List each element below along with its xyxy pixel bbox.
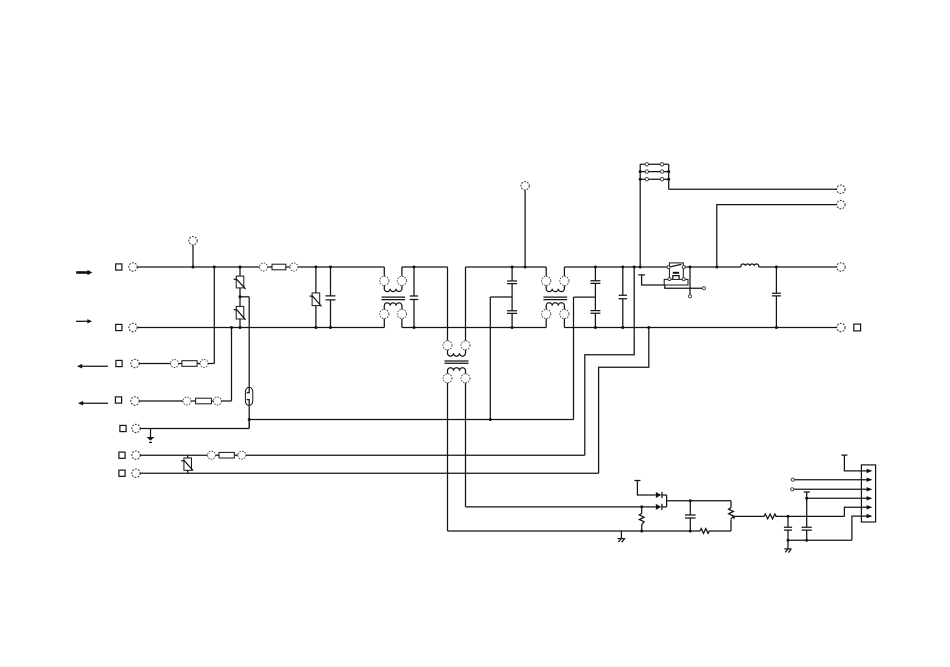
fuse F1 row1 [260, 263, 298, 271]
wire row2 to row7 feed [599, 328, 649, 474]
arrow L (bold input arrow row1) [76, 270, 92, 275]
ground row5 [147, 429, 155, 444]
wire midpoint riser to bus2 [573, 297, 575, 419]
jumper block J1 [640, 163, 669, 267]
wire row4 to riser [221, 400, 231, 402]
wire diode join [666, 495, 668, 507]
capacitor C1 (series pair upper) [507, 267, 517, 284]
wire row1 fuse-to-choke [298, 266, 384, 268]
wire Vcc tee [634, 481, 653, 496]
wire row5 [140, 428, 249, 430]
capacitor CX1 [326, 267, 336, 328]
wire diode output [667, 500, 731, 502]
capacitor C3 (series pair upper) [590, 267, 600, 283]
capacitor C5 [619, 267, 627, 328]
resistor R1 [639, 507, 644, 531]
wire riser y419 to row5 [248, 420, 250, 429]
ground secondary [618, 531, 626, 542]
ground C8 [784, 540, 791, 552]
capacitor C7 [685, 501, 696, 531]
wire C3/C4 midpoint link [574, 296, 596, 298]
junction dots row1 [192, 266, 778, 269]
fuse F5 row6 [208, 451, 246, 459]
pad square row2 [116, 324, 122, 330]
wire row3 to riser [208, 363, 214, 365]
wire row1 T1-to-choke2 [466, 266, 547, 268]
capacitor C6 [772, 267, 781, 328]
node E2 riser with top circle [521, 182, 529, 267]
wire midpoint riser to bus [489, 297, 491, 420]
wire T1 secondary bottom lead [448, 530, 701, 532]
arrow out row3 [77, 364, 108, 369]
terminal row7 [132, 469, 140, 477]
pad square row6 [119, 452, 125, 458]
terminal P3 [837, 263, 845, 271]
pad square row5 [120, 425, 126, 431]
wire row2 middle [402, 327, 546, 329]
wire relay NO contact [688, 267, 691, 298]
wire row6 right [246, 454, 585, 456]
terminal row6 [132, 451, 140, 459]
wire T1 secondary top lead [466, 506, 651, 508]
pad square row7 [119, 470, 125, 476]
wire row1 to row6 feed [585, 267, 634, 455]
wire row1 choke2-to-relay [564, 266, 667, 268]
pad square row3 [116, 360, 122, 366]
terminal P1 [837, 185, 845, 193]
fuse F3 row4 [183, 397, 221, 405]
wire CN1 pin2 [791, 478, 872, 482]
capacitor C8 [784, 516, 792, 540]
wire feedback line [734, 515, 764, 517]
wire row7 [140, 472, 598, 474]
wire row4-to-row2 riser [231, 328, 233, 402]
wire CN1 pin4 [807, 496, 873, 500]
terminal row5 [132, 424, 140, 432]
wire row1 choke1-to-T1 [402, 266, 448, 268]
junction dots misc [239, 170, 809, 542]
wire jumper to terminal P1 [669, 188, 837, 190]
capacitor C9 with tee [802, 492, 812, 540]
capacitor C2 (series pair lower) [507, 284, 517, 328]
wire row6 [140, 454, 207, 456]
terminal row3 [131, 359, 139, 367]
fuse F4 (thermal capsule) [245, 387, 252, 405]
wire capsule top riser [248, 297, 250, 387]
varistor RV3 [310, 267, 322, 328]
wire varistor midpoint link [240, 296, 249, 298]
pad square row1 [116, 264, 122, 270]
transformer T1 [443, 267, 470, 531]
wire row2 (N rail) left [137, 327, 384, 329]
wire row1 inductor-to-terminal [759, 266, 837, 268]
pad square row4 [115, 397, 121, 403]
wire row5 riser [248, 406, 250, 429]
terminal P2 [837, 200, 845, 208]
terminal row1 [129, 263, 137, 271]
wire row1 left (L rail) [137, 266, 259, 268]
capacitor C4 (series pair lower) [590, 283, 600, 327]
diode D2 [650, 504, 667, 510]
capacitor CX2 [410, 267, 418, 328]
wire CN1 pin1 with tee [841, 455, 872, 473]
wire bus line y419 [249, 419, 573, 421]
arrow N (thin input arrow row2) [76, 319, 92, 323]
wire terminal P2 drop [717, 205, 837, 267]
wire relay coil left lead [638, 275, 664, 285]
junction dots row2 [230, 326, 778, 329]
wire ground bus bottom [788, 539, 852, 541]
wire row4 [139, 400, 183, 402]
varistor RV1 [234, 267, 246, 289]
inductor L3 [741, 264, 759, 267]
varistor RV2 [234, 288, 246, 328]
wire row1-to-row3 riser [213, 267, 215, 364]
pad square P4 [854, 324, 861, 331]
node E1 riser with top circle [189, 237, 197, 268]
diode D1 [653, 492, 667, 498]
terminal row2 [129, 323, 137, 331]
wire row2 right [564, 327, 836, 329]
wire row1 relay-to-terminal [685, 266, 741, 268]
arrow out row4 [78, 401, 108, 406]
wire CN1 pin3 [791, 487, 873, 491]
relay K1 [664, 263, 688, 285]
terminal row4 [131, 397, 139, 405]
wire row3 [139, 363, 170, 365]
wire C1/C2 midpoint link [490, 296, 512, 298]
wire CN1 pin6 [852, 514, 873, 540]
regulator VR1 (shunt with arrow) [729, 501, 736, 531]
common-mode choke L1 [380, 267, 407, 328]
varistor RV4 [181, 455, 193, 473]
wire feedback line right [775, 515, 844, 517]
resistor R3 [764, 514, 776, 519]
connector CN1 [861, 465, 875, 522]
fuse F2 row3 [171, 360, 209, 368]
wire relay coil bottom lead with open contact [665, 285, 706, 290]
common-mode choke L2 [542, 267, 569, 328]
wire CN1 pin5 [844, 505, 872, 516]
resistor R2 [700, 529, 731, 534]
terminal P4 [837, 323, 845, 331]
